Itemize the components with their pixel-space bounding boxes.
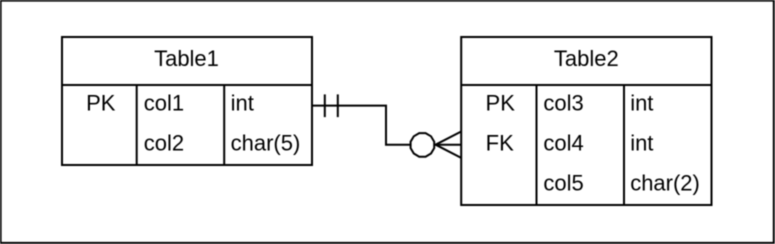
Table1 type column divider — [223, 85, 225, 165]
zero cardinality circle — [411, 133, 435, 157]
svg-text:FK: FK — [486, 130, 514, 155]
svg-text:Table2: Table2 — [554, 46, 619, 71]
svg-text:col1: col1 — [144, 90, 184, 115]
svg-text:int: int — [630, 90, 653, 115]
Table1 header divider — [62, 84, 312, 86]
crow's foot top prong — [436, 132, 462, 145]
table Table1 box — [62, 37, 312, 165]
svg-text:int: int — [630, 130, 653, 155]
svg-text:PK: PK — [486, 90, 516, 115]
svg-text:col5: col5 — [543, 170, 583, 195]
Table2 header divider — [461, 84, 711, 86]
svg-text:col2: col2 — [144, 130, 184, 155]
Table2 type column divider — [623, 85, 625, 205]
crow's foot middle prong — [434, 144, 461, 146]
svg-text:int: int — [231, 90, 254, 115]
svg-text:char(5): char(5) — [231, 130, 301, 155]
svg-text:Table1: Table1 — [154, 46, 219, 71]
table Table2 box — [461, 37, 711, 205]
svg-text:col4: col4 — [543, 130, 583, 155]
svg-text:PK: PK — [86, 90, 116, 115]
cardinality tick 1 (exactly one) — [324, 94, 326, 117]
cardinality tick 2 (exactly one) — [337, 94, 339, 117]
crow's foot bottom prong — [436, 145, 462, 158]
svg-text:col3: col3 — [543, 90, 583, 115]
Table2 key column divider — [536, 85, 538, 205]
Table1 key column divider — [136, 85, 138, 165]
svg-text:char(2): char(2) — [630, 170, 700, 195]
wire from Table1 to elbow — [312, 106, 411, 145]
